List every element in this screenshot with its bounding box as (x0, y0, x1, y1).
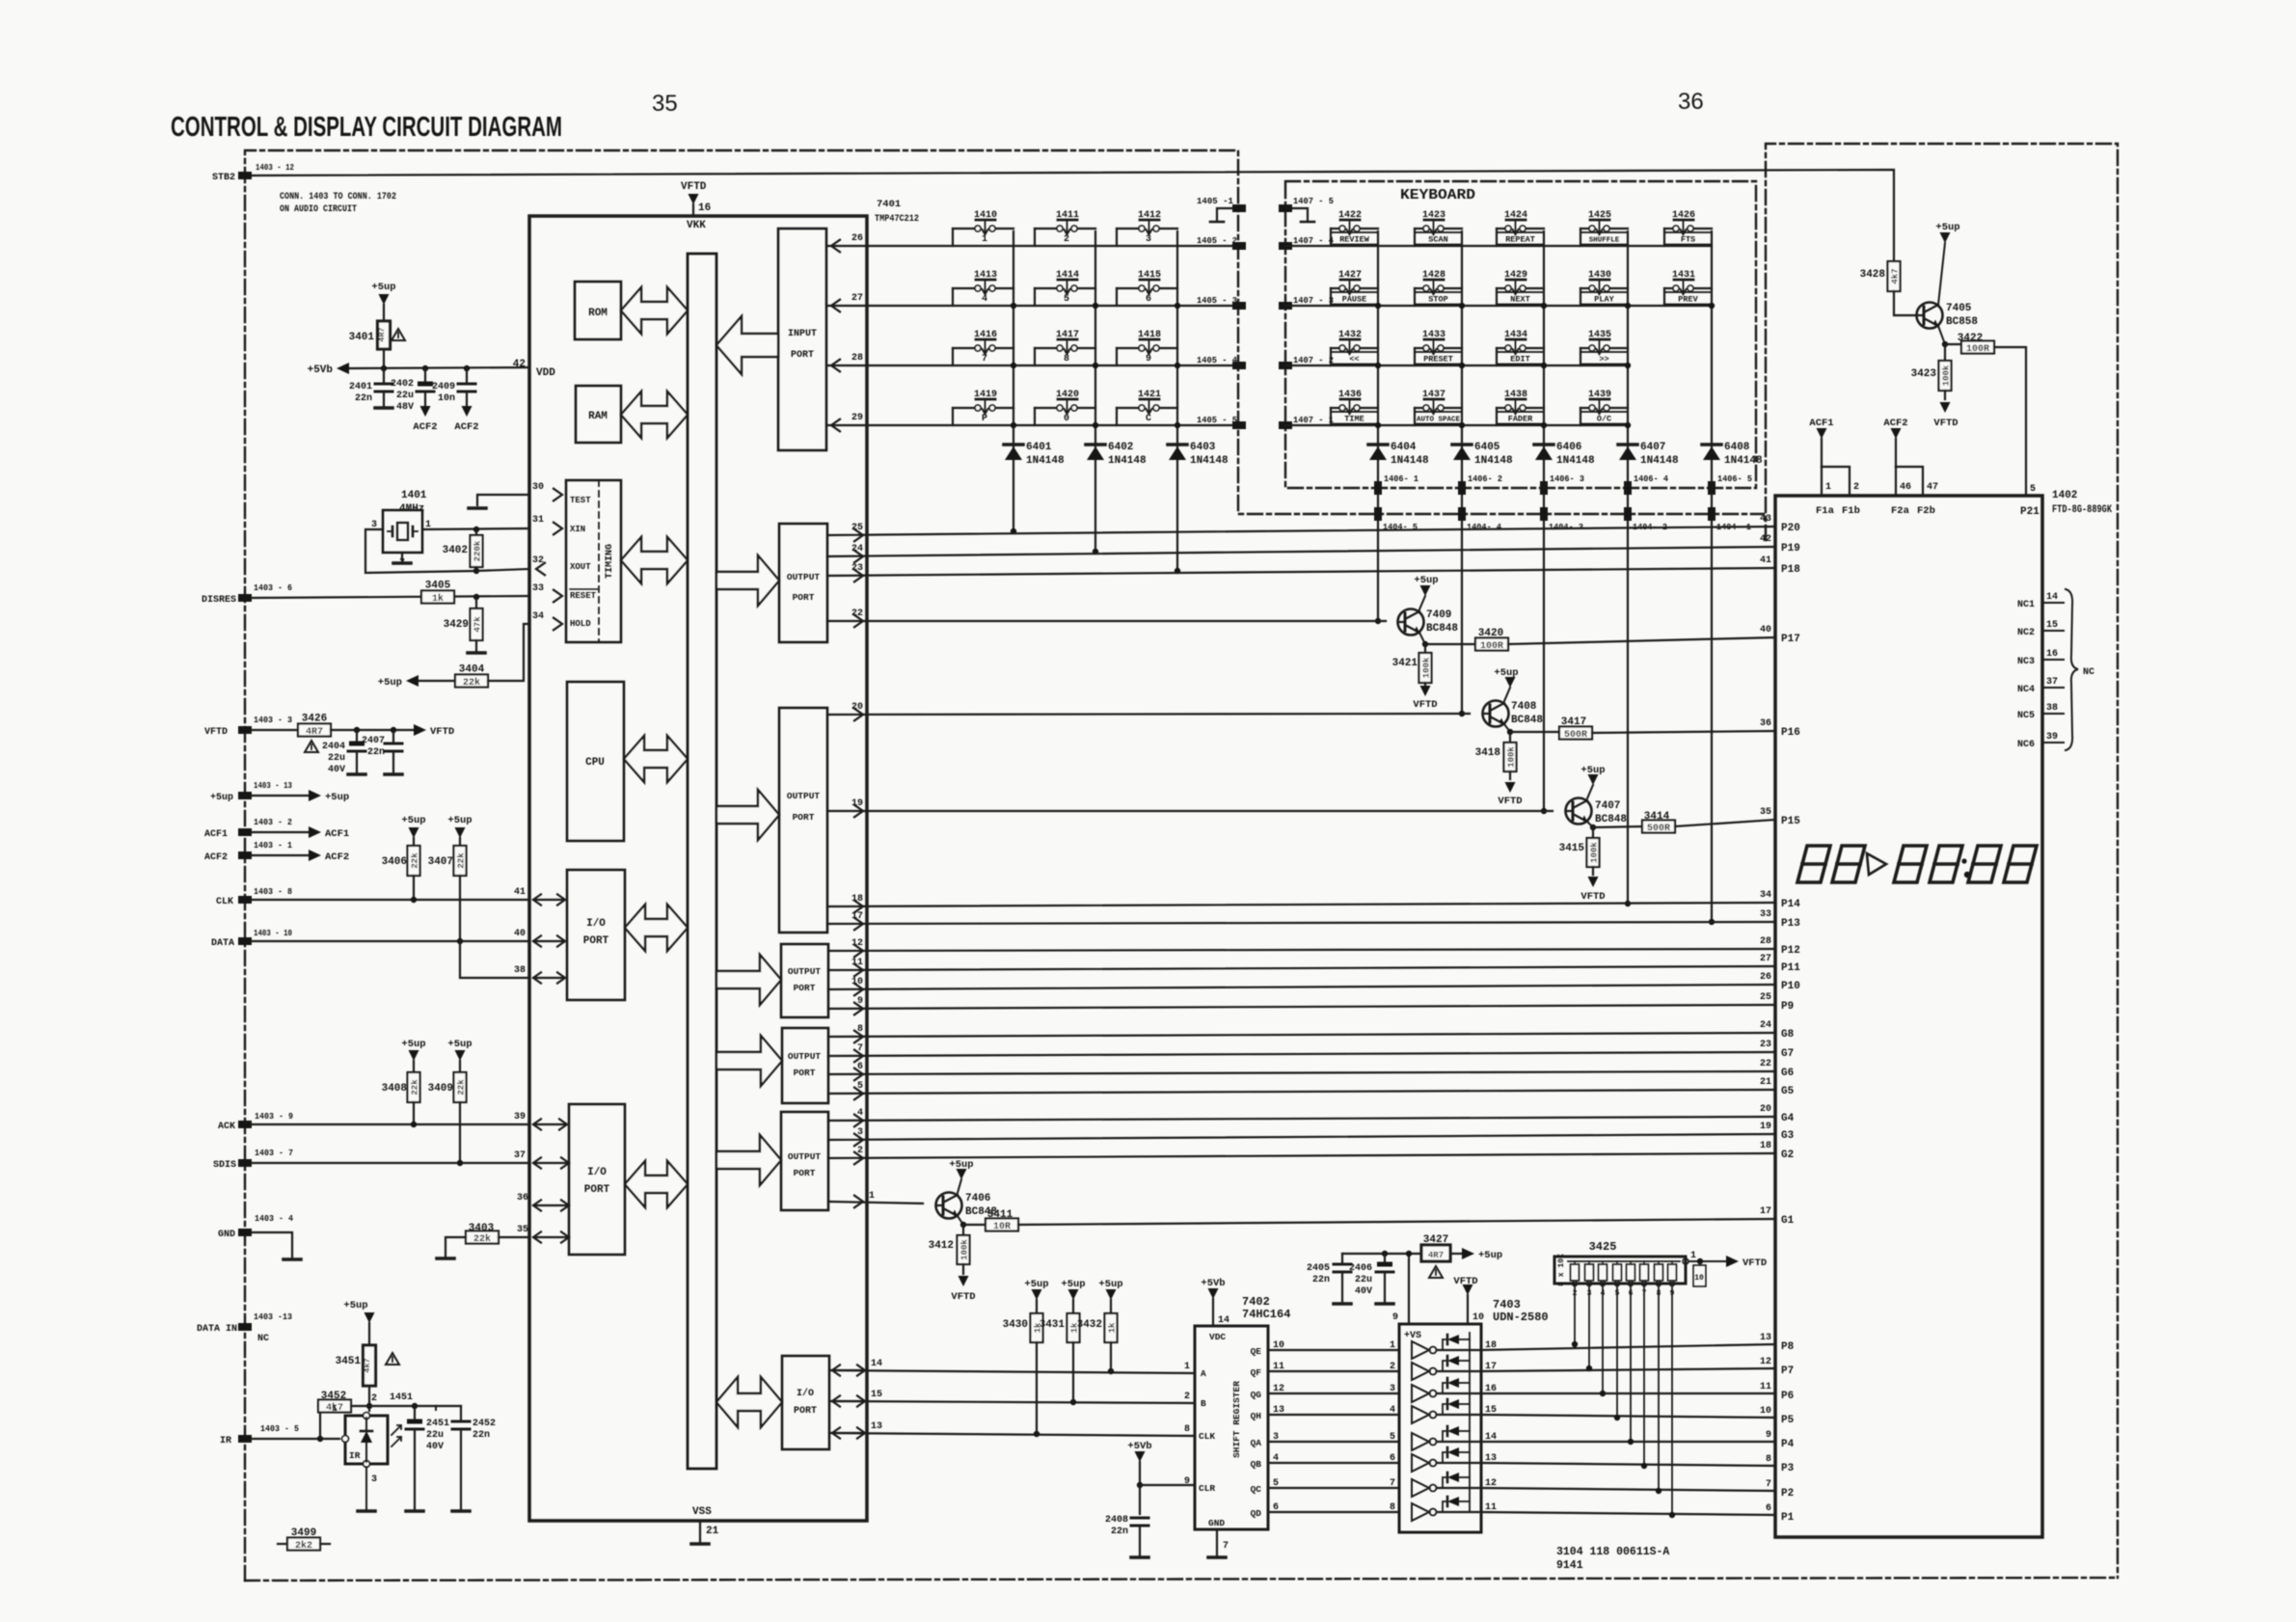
wire line 25 to display P20 (827, 527, 1775, 535)
svg-text:1403 - 4: 1403 - 4 (255, 1213, 293, 1224)
keypad column 3 wire (1176, 231, 1178, 571)
svg-text:3406: 3406 (382, 856, 407, 868)
wire 7403 output to display P6 (1481, 1392, 1775, 1394)
bus arrow I/O lower (625, 1161, 688, 1207)
diode 6408 1N4148 (1702, 443, 1721, 446)
svg-text:6405: 6405 (1474, 442, 1500, 453)
svg-text:P20: P20 (1781, 523, 1800, 534)
svg-text:24: 24 (1760, 1020, 1771, 1031)
key switch 1413 (953, 270, 1013, 306)
key switch 1429 (1497, 270, 1544, 306)
svg-text:G2: G2 (1781, 1149, 1794, 1161)
left section dash-dot frame (245, 150, 1764, 1581)
keyboard column 1404-1 wire (1711, 231, 1713, 922)
transistor 7406 BC848 (936, 1193, 962, 1219)
wire P17 line to display (1508, 637, 1775, 644)
svg-text:22n: 22n (473, 1430, 490, 1441)
bottom dash-dot border (245, 1578, 2118, 1581)
key switch 1431 (1664, 270, 1712, 306)
svg-text:27: 27 (851, 293, 863, 304)
svg-text:2409: 2409 (432, 382, 455, 392)
svg-text:27: 27 (1760, 954, 1771, 964)
svg-text:UDN-2580: UDN-2580 (1493, 1311, 1549, 1324)
svg-text:1451: 1451 (390, 1392, 413, 1403)
svg-text:2k2: 2k2 (295, 1540, 312, 1552)
7403 clamp diode QG (1443, 1383, 1445, 1393)
svg-text:P13: P13 (1781, 918, 1800, 930)
svg-text:4: 4 (982, 294, 987, 305)
svg-text:+5Vb: +5Vb (1127, 1441, 1151, 1452)
svg-text:37: 37 (2046, 677, 2058, 688)
svg-text:1404- 3: 1404- 3 (1549, 522, 1583, 532)
svg-text:11: 11 (1485, 1502, 1497, 1513)
capacitor 2406 22u 40V (1384, 1254, 1386, 1262)
wire 3428 to 7405 base (1894, 291, 1917, 315)
svg-text:1403 - 13: 1403 - 13 (254, 780, 292, 791)
svg-text:G1: G1 (1781, 1215, 1795, 1227)
svg-text:1405 - 3: 1405 - 3 (1197, 295, 1237, 306)
IR light arrows (392, 1425, 401, 1435)
svg-text:4R7: 4R7 (1428, 1251, 1444, 1260)
svg-text:47: 47 (1927, 482, 1938, 493)
key switch 1415 (1117, 270, 1177, 306)
svg-text:NC: NC (2083, 667, 2094, 678)
wire 7403 output to display P5 (1481, 1415, 1775, 1418)
svg-text:P4: P4 (1781, 1439, 1795, 1450)
IR pin3 ground (365, 1467, 367, 1510)
svg-text:OUTPUT: OUTPUT (788, 1151, 822, 1162)
7403 clamp diode QA (1443, 1431, 1445, 1442)
wire line 24 to display P19 (827, 547, 1775, 556)
svg-text:6403: 6403 (1190, 442, 1216, 453)
wire G1 line to display (1018, 1219, 1775, 1225)
resistor 3429 47k (475, 597, 477, 608)
svg-text:OUTPUT: OUTPUT (787, 572, 821, 582)
labels 1406-1..5 and ticks on keyboard bottom (1374, 481, 1382, 495)
svg-text:P7: P7 (1781, 1365, 1794, 1377)
svg-text:36: 36 (1678, 89, 1704, 115)
svg-text:PAUSE: PAUSE (1342, 295, 1367, 305)
svg-text:XOUT: XOUT (570, 562, 591, 572)
svg-text:QB: QB (1251, 1459, 1262, 1470)
svg-text:NC6: NC6 (2017, 740, 2035, 750)
svg-text:9: 9 (1392, 1312, 1398, 1323)
key switch 1424 (1497, 210, 1544, 246)
svg-text:2: 2 (1184, 1392, 1190, 1402)
wire line 19 to transistor 7407 base (827, 810, 1553, 812)
svg-text:6: 6 (1766, 1503, 1771, 1514)
wire crystal pin1 to XIN pin 31 (422, 528, 529, 529)
svg-text:3104 118 00611S-A: 3104 118 00611S-A (1556, 1546, 1669, 1558)
bus arrow RAM (621, 392, 688, 438)
svg-text:1: 1 (332, 1404, 338, 1415)
svg-text:2405: 2405 (1307, 1263, 1330, 1274)
svg-text:PLAY: PLAY (1594, 295, 1614, 305)
svg-text:CLR: CLR (1199, 1483, 1215, 1494)
svg-text:NC4: NC4 (2017, 685, 2035, 695)
svg-text:3421: 3421 (1392, 658, 1418, 669)
svg-text:3405: 3405 (425, 581, 451, 592)
svg-text:OUTPUT: OUTPUT (788, 966, 822, 977)
svg-text:2404: 2404 (322, 742, 345, 752)
svg-text:1: 1 (1390, 1340, 1395, 1351)
VFTD terminal 3412 (962, 1264, 964, 1274)
svg-text:1406- 3: 1406- 3 (1550, 473, 1584, 484)
wire P16 line to display (1592, 731, 1775, 733)
svg-text:26: 26 (851, 233, 863, 244)
7403 driver QC (1412, 1479, 1429, 1497)
resistor 3404 22k (455, 675, 488, 688)
key switch 1426 (1664, 210, 1712, 246)
emitter node 7409 (1419, 633, 1425, 644)
svg-text:QF: QF (1251, 1367, 1262, 1378)
svg-text:3431: 3431 (1040, 1319, 1066, 1331)
svg-text:15: 15 (1485, 1405, 1497, 1416)
7-segment display digits (1797, 846, 1830, 882)
svg-text:VFTD: VFTD (1933, 418, 1958, 429)
svg-text:7405: 7405 (1946, 303, 1972, 314)
svg-text:10: 10 (1694, 1274, 1704, 1283)
svg-text:8: 8 (1184, 1424, 1190, 1435)
keyboard column 1404-4 wire (1461, 231, 1463, 714)
svg-text:1N4148: 1N4148 (1190, 455, 1229, 467)
svg-text:P5: P5 (1781, 1415, 1795, 1426)
svg-text:STB2: STB2 (212, 173, 235, 183)
svg-text:B: B (1201, 1398, 1206, 1409)
svg-text:41: 41 (514, 887, 526, 898)
OUTPUT PORT block 1 (779, 524, 827, 642)
svg-text:3: 3 (1390, 1384, 1395, 1394)
svg-text:+5up: +5up (210, 793, 233, 803)
svg-text:VKK: VKK (687, 220, 706, 231)
svg-text:3408: 3408 (382, 1083, 408, 1095)
svg-text:PORT: PORT (793, 592, 815, 603)
svg-text:21: 21 (1760, 1077, 1771, 1088)
svg-text:1k: 1k (432, 593, 444, 605)
svg-text:P16: P16 (1781, 727, 1800, 739)
transistor 7409 BC848 (1398, 609, 1424, 635)
svg-text:+5up: +5up (447, 1039, 472, 1050)
svg-text:PREV: PREV (1678, 295, 1698, 305)
svg-text:3: 3 (1273, 1432, 1279, 1443)
svg-text:CPU: CPU (585, 757, 605, 769)
svg-text:7409: 7409 (1426, 609, 1451, 621)
svg-text:VFTD: VFTD (1413, 699, 1437, 711)
svg-text:2406: 2406 (1349, 1263, 1372, 1274)
svg-text:P19: P19 (1781, 543, 1800, 554)
svg-text:BC848: BC848 (1595, 814, 1627, 825)
wire line 18 to display P14 (827, 903, 1775, 906)
svg-text:STOP: STOP (1428, 295, 1447, 305)
svg-text:1N4148: 1N4148 (1108, 455, 1147, 467)
svg-text:A: A (1201, 1368, 1206, 1379)
key switch 1428 (1415, 270, 1462, 306)
svg-text:G8: G8 (1781, 1029, 1795, 1041)
svg-text:26: 26 (1760, 972, 1771, 983)
svg-text:2401: 2401 (349, 382, 372, 392)
bus arrow OUTPUT PORT 5 (716, 1135, 781, 1185)
svg-text:22n: 22n (367, 747, 385, 758)
7403 driver QH (1412, 1406, 1429, 1423)
bus arrow ROM (621, 287, 688, 334)
NC brace (2066, 589, 2078, 750)
svg-text:18: 18 (1485, 1340, 1497, 1351)
svg-text:35: 35 (652, 91, 678, 117)
OUTPUT PORT block 5 (781, 1112, 828, 1210)
svg-text:33: 33 (532, 583, 544, 594)
7403 driver QB (1412, 1454, 1429, 1472)
svg-text:+5up: +5up (1935, 222, 1959, 233)
wire DISRES to RESET pin 33 (252, 596, 529, 598)
svg-text:4R7: 4R7 (306, 727, 323, 738)
svg-text:40V: 40V (328, 765, 345, 775)
svg-text:P10: P10 (1781, 981, 1800, 992)
svg-text:CLK: CLK (216, 897, 233, 907)
7402 output QF wire to 7403 (1268, 1370, 1399, 1372)
svg-text:41: 41 (1760, 555, 1771, 566)
resistor 3401 4R7 (378, 321, 391, 349)
input row 1405-4 pin 28 (827, 365, 1239, 366)
svg-text:38: 38 (2046, 703, 2058, 714)
input row 1405-5 pin 29 (827, 424, 1239, 426)
svg-text:10n: 10n (438, 393, 455, 404)
svg-text:FADER: FADER (1508, 415, 1533, 424)
svg-text:1405 - 5: 1405 - 5 (1197, 415, 1237, 425)
svg-text:>>: >> (1599, 355, 1608, 365)
key switch 1419 (953, 390, 1013, 425)
svg-text:14: 14 (1485, 1432, 1497, 1443)
resistor 3409 22k (454, 1072, 467, 1102)
svg-text:5: 5 (2030, 484, 2036, 495)
svg-text:INPUT: INPUT (788, 329, 817, 339)
svg-text:P: P (982, 414, 987, 424)
svg-text:22k: 22k (463, 677, 480, 689)
svg-text:7402: 7402 (1242, 1295, 1270, 1309)
wire line 3 to display G3 (828, 1134, 1775, 1140)
svg-text:1403 - 12: 1403 - 12 (256, 162, 294, 173)
svg-text:QH: QH (1251, 1411, 1262, 1421)
svg-text:1403 - 6: 1403 - 6 (254, 582, 292, 593)
7403 supply pins 9 and 10 (1408, 1254, 1410, 1324)
7403 internal supply bus (1469, 1333, 1471, 1512)
svg-text:ACF2: ACF2 (204, 852, 228, 863)
svg-text:1403 - 7: 1403 - 7 (255, 1148, 293, 1158)
wire 7403 output to display P2 (1481, 1488, 1775, 1491)
capacitor 2407 22n (392, 730, 394, 742)
I/O PORT block 3 (782, 1356, 829, 1449)
svg-text:23: 23 (1760, 1040, 1771, 1050)
svg-text:TEST: TEST (570, 496, 591, 505)
keyboard column 1404-5 wire (1377, 231, 1379, 621)
right section dash-dot frame (1766, 144, 2118, 1578)
svg-text:29: 29 (851, 413, 863, 423)
svg-text:36: 36 (1760, 718, 1771, 729)
keyboard column 1404-3 wire (1543, 231, 1545, 811)
7403 driver QE (1412, 1341, 1429, 1359)
svg-text:PORT: PORT (794, 1406, 817, 1417)
keyboard column 1404-2 wire (1627, 231, 1629, 904)
labels 1404-5..1 and ticks on frame line (1374, 507, 1382, 521)
svg-text:I/O: I/O (587, 1167, 607, 1178)
wire line 15 to 7402 B (829, 1401, 1195, 1403)
7403 clamp diode QE (1443, 1339, 1445, 1350)
svg-text:ACF2: ACF2 (325, 852, 349, 863)
svg-text:PORT: PORT (584, 1184, 610, 1196)
OUTPUT PORT block 2 (779, 708, 827, 933)
svg-text:PORT: PORT (791, 350, 814, 361)
svg-text:12: 12 (1273, 1384, 1284, 1394)
svg-text:ACF1: ACF1 (1809, 418, 1833, 429)
svg-text:34: 34 (532, 611, 544, 622)
wire SDIS to pin 37 (252, 1162, 529, 1164)
svg-text:+5up: +5up (447, 815, 472, 826)
wire DATA to pin 40 (252, 940, 529, 942)
3425 pin 1 to VFTD (1683, 1258, 1688, 1264)
svg-text:REVIEW: REVIEW (1339, 235, 1370, 245)
wire line 1 to transistor 7406 base (828, 1202, 923, 1203)
svg-text:4R7: 4R7 (377, 327, 387, 341)
svg-text:40: 40 (1760, 625, 1771, 635)
svg-text:11: 11 (1273, 1362, 1284, 1372)
key switch 1430 (1580, 270, 1628, 306)
svg-text:1406- 1: 1406- 1 (1384, 473, 1418, 484)
svg-text:VFTD: VFTD (430, 726, 454, 738)
capacitor 2402 22u 48V (424, 368, 426, 382)
IR receiver 1451 (345, 1416, 388, 1464)
svg-text:PORT: PORT (583, 935, 609, 947)
svg-text:30: 30 (532, 482, 544, 493)
svg-text:3425: 3425 (1589, 1240, 1617, 1254)
svg-text:+5up: +5up (325, 792, 349, 803)
wire line 4 to display G4 (828, 1117, 1775, 1121)
svg-text:ROM: ROM (588, 308, 608, 319)
svg-text:P9: P9 (1781, 1001, 1794, 1013)
svg-text:500R: 500R (1647, 824, 1670, 834)
diode 6403 1N4148 (1168, 443, 1187, 446)
svg-text:13: 13 (1273, 1405, 1284, 1416)
svg-text:1: 1 (869, 1191, 875, 1202)
7402 output QA wire to 7403 (1268, 1441, 1399, 1443)
resistor 3415 100k (1592, 827, 1594, 838)
svg-text:14: 14 (1218, 1315, 1229, 1326)
resistor 3423 100k (1944, 344, 1946, 361)
svg-text:BC848: BC848 (1426, 623, 1458, 635)
svg-text:3451: 3451 (336, 1356, 362, 1367)
svg-text:1N4148: 1N4148 (1391, 455, 1429, 467)
svg-text:F1a: F1a (1816, 505, 1835, 517)
bus arrow CPU (624, 736, 688, 782)
7403 driver QA (1412, 1433, 1429, 1450)
svg-text:22k: 22k (411, 852, 420, 869)
svg-text:3409: 3409 (428, 1083, 453, 1095)
bus arrow OUTPUT PORT 3 (716, 955, 781, 1005)
svg-text:1406- 4: 1406- 4 (1634, 473, 1668, 484)
key switch 1416 (953, 330, 1013, 365)
key switch 1412 (1117, 210, 1177, 246)
resistor 3402 220k (473, 527, 479, 532)
wire line 11 to display P11 (828, 966, 1775, 970)
input row 1405-3 pin 27 (827, 305, 1239, 307)
wire STB2 to 3428 (252, 170, 1894, 261)
svg-text:46: 46 (1900, 482, 1911, 493)
svg-text:1N4148: 1N4148 (1724, 455, 1763, 467)
capacitor 2401 22n (383, 368, 385, 382)
VFTD terminal 3421 (1424, 683, 1426, 686)
svg-text:12: 12 (1760, 1357, 1771, 1367)
svg-text:ACF1: ACF1 (325, 828, 349, 840)
wire 7403 output to display P7 (1481, 1368, 1775, 1371)
svg-text:+5up: +5up (371, 282, 395, 293)
diode 6401 1N4148 (1004, 443, 1023, 446)
7402 output QH wire to 7403 (1268, 1414, 1399, 1416)
svg-text:35: 35 (517, 1225, 528, 1235)
svg-text:CONTROL & DISPLAY CIRCUIT DIAG: CONTROL & DISPLAY CIRCUIT DIAGRAM (171, 112, 562, 143)
svg-text:+5up: +5up (1061, 1279, 1085, 1290)
svg-text:1403 - 3: 1403 - 3 (254, 715, 292, 725)
svg-text:3429: 3429 (444, 619, 469, 631)
svg-text:1N4148: 1N4148 (1474, 455, 1513, 467)
key switch 1423 (1415, 210, 1462, 246)
bus arrow INPUT PORT (716, 316, 778, 374)
wire 7403 output to display P8 (1481, 1344, 1775, 1350)
svg-text:3430: 3430 (1003, 1319, 1028, 1331)
svg-text:3: 3 (371, 1474, 377, 1485)
wire line 20 to transistor 7408 base (827, 714, 1470, 715)
diode 6407 1N4148 (1618, 443, 1637, 446)
wire line 23 to display P18 (827, 568, 1775, 576)
svg-text:P6: P6 (1781, 1391, 1794, 1402)
svg-text:+5up: +5up (343, 1300, 367, 1311)
svg-text:CONN. 1403 TO CONN. 1702: CONN. 1403 TO CONN. 1702 (280, 191, 396, 203)
svg-text:1: 1 (982, 234, 987, 245)
bus arrow I/O upper (625, 905, 688, 951)
svg-text:1407 - 3: 1407 - 3 (1293, 295, 1334, 306)
svg-text:P3: P3 (1781, 1463, 1795, 1474)
svg-text:16: 16 (1485, 1384, 1497, 1394)
svg-text:ACK: ACK (218, 1122, 235, 1132)
svg-text:VDC: VDC (1209, 1332, 1226, 1342)
wire 3427 to +5up (1450, 1253, 1462, 1255)
display 1402 FTD-8G-889GK outline (1775, 496, 2042, 1537)
svg-text:HOLD: HOLD (570, 619, 591, 629)
emitter node 7408 (1504, 724, 1510, 732)
7402 output QC wire to 7403 (1268, 1487, 1399, 1489)
bus arrow OUTPUT PORT 1 (716, 555, 779, 606)
svg-text:P17: P17 (1781, 634, 1800, 645)
wire VFTD rail (331, 729, 414, 731)
bus arrow OUTPUT PORT 2 (716, 790, 779, 840)
svg-text:15: 15 (2046, 620, 2058, 631)
7403 clamp diode QF (1443, 1361, 1445, 1371)
svg-text:GND: GND (1208, 1518, 1225, 1528)
bus arrow OUTPUT PORT 4 (716, 1036, 782, 1086)
svg-text:1403 -13: 1403 -13 (254, 1311, 292, 1322)
capacitor 2451 22u 40V (414, 1406, 416, 1419)
svg-text:P8: P8 (1781, 1341, 1795, 1353)
svg-text:P15: P15 (1781, 816, 1800, 827)
svg-text:DATA: DATA (211, 938, 234, 949)
svg-text:5: 5 (1390, 1432, 1395, 1443)
RAM block (576, 386, 621, 443)
VFTD terminal 3423 (1944, 391, 1946, 399)
wire 7403 output to display P1 (1481, 1512, 1775, 1515)
7403 driver QF (1412, 1363, 1429, 1380)
emitter node 7407 (1587, 822, 1593, 827)
svg-text:100k: 100k (1942, 365, 1952, 386)
svg-text:ACF1: ACF1 (204, 829, 228, 840)
svg-text:1403 - 10: 1403 - 10 (254, 928, 292, 938)
svg-text:100k: 100k (960, 1239, 970, 1260)
